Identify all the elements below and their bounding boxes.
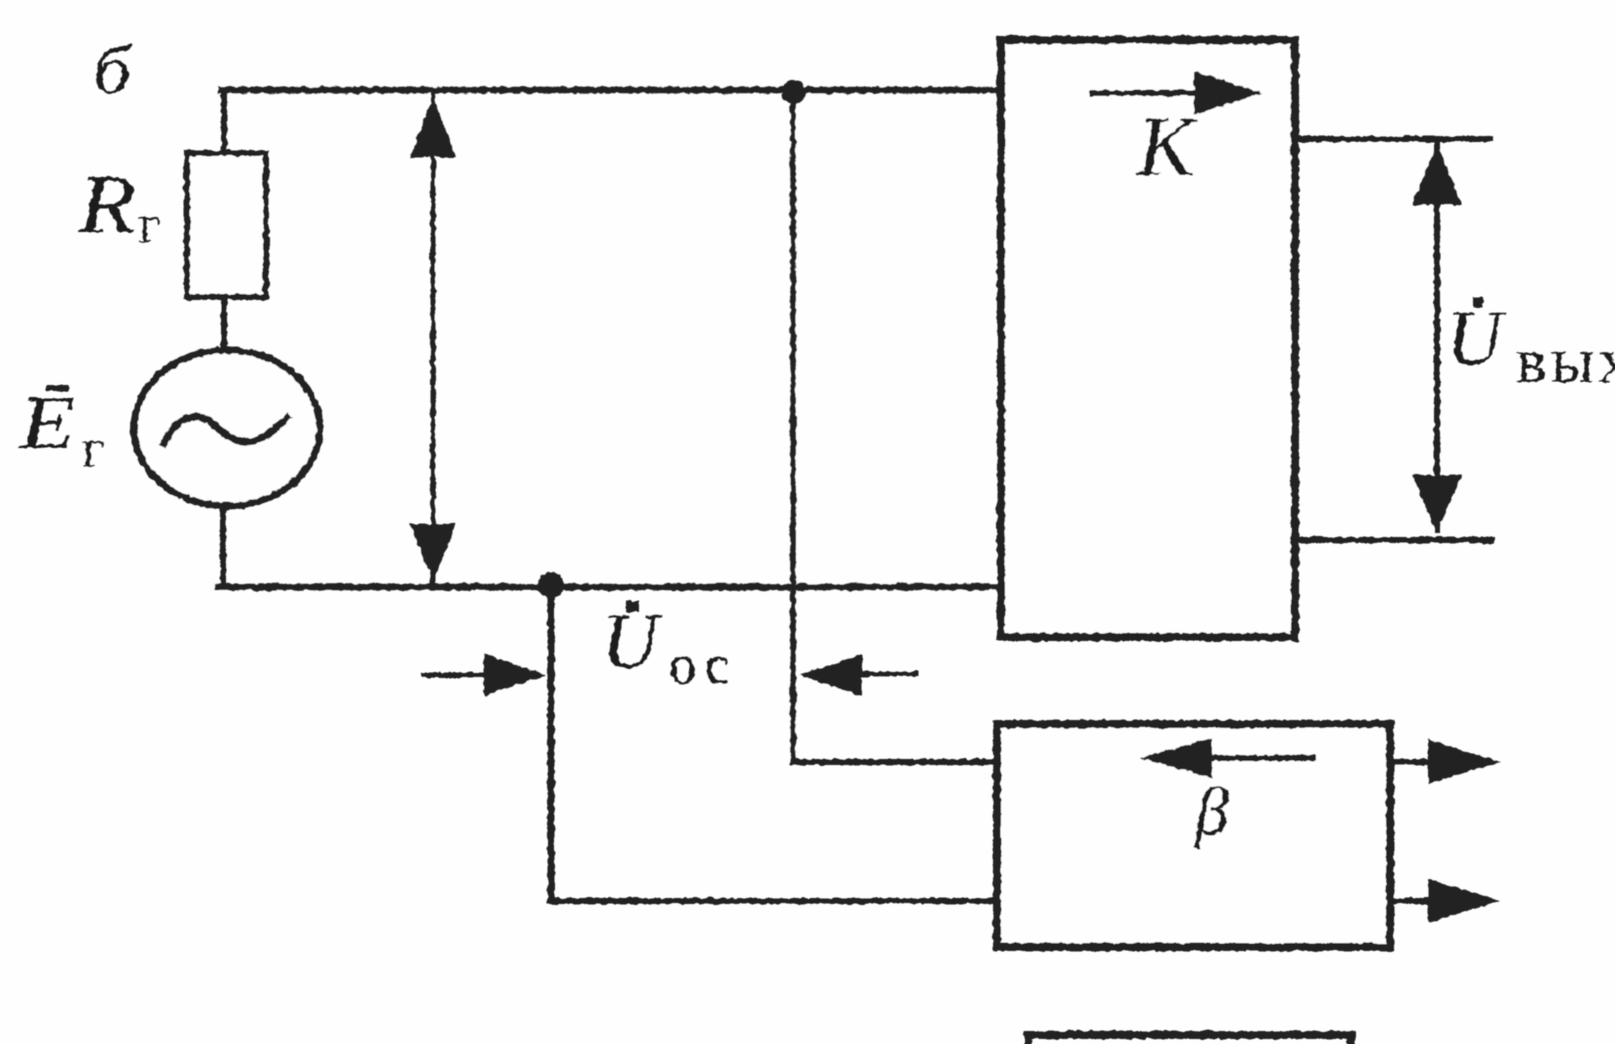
sine wave inside source	[164, 417, 287, 443]
wire to β upper input	[793, 759, 997, 765]
arrow pointing right at Uос node	[424, 673, 490, 678]
svg-text:г: г	[138, 194, 160, 254]
node Uос junction	[538, 572, 564, 598]
wire from input node down	[790, 92, 796, 762]
svg-text:E: E	[19, 381, 75, 465]
β block arrow pointing left	[1210, 755, 1313, 761]
input voltage double arrow	[431, 92, 436, 582]
wire top rail	[221, 87, 998, 94]
β top output arrow	[1394, 759, 1445, 765]
source Ėг circle	[134, 350, 320, 506]
wire from top rail down to resistor	[221, 90, 227, 154]
svg-text:β: β	[1193, 773, 1229, 849]
svg-text:вых: вых	[1516, 325, 1615, 397]
arrow pointing left at feedback line	[860, 672, 916, 677]
wire feedback left vertical	[548, 585, 555, 901]
feedback block β	[997, 724, 1390, 947]
resistor Rг	[187, 153, 266, 297]
svg-text:г: г	[82, 418, 104, 478]
wire K top output	[1297, 136, 1490, 142]
wire to β lower input	[551, 898, 997, 904]
svg-text:ос: ос	[669, 634, 736, 695]
wire resistor to source	[221, 297, 227, 352]
partial block at bottom	[1028, 1035, 1351, 1044]
wire bottom rail	[218, 584, 999, 591]
wire K bottom output	[1297, 537, 1492, 543]
wire source to bottom rail	[220, 506, 226, 583]
output voltage double arrow	[1434, 145, 1440, 530]
svg-text:б: б	[93, 32, 134, 108]
svg-text:R: R	[77, 158, 136, 251]
β bottom output arrow	[1394, 898, 1445, 904]
amplifier block K	[1001, 40, 1295, 637]
node input junction	[782, 80, 806, 104]
svg-text:K: K	[1135, 98, 1199, 194]
K input-output arrow	[1092, 90, 1200, 96]
